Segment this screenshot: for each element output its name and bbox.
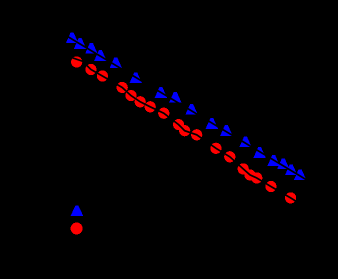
circle C12 [210,143,221,154]
circle C7 [145,101,156,112]
triangle T1 [66,32,78,43]
circle C16 [251,172,262,183]
legend marker: red circle [71,223,83,235]
triangle T13 [253,147,265,158]
triangle T8 [169,92,181,103]
circle C1 [71,56,82,67]
circle C11 [191,129,202,140]
triangle T15 [277,159,289,170]
triangle T4 [94,50,106,61]
circle C13 [224,151,235,162]
triangle T10 [206,118,218,129]
circle C6 [135,96,146,107]
triangle T9 [185,104,197,115]
black fit line over red series [67,56,297,202]
triangle T11 [220,125,232,136]
circle C18 [285,192,296,203]
circle C3 [97,70,108,81]
circle C15 [244,169,255,180]
legend marker: blue triangle [70,206,83,217]
triangle T2 [74,38,86,49]
circle C9 [173,119,184,130]
triangle T6 [130,72,142,83]
circle C4 [117,82,128,93]
circle C5 [125,90,136,101]
triangle T5 [110,58,122,69]
circle C2 [85,64,96,75]
triangle T14 [268,155,280,166]
circle C17 [265,181,276,192]
circle C14 [238,163,249,174]
blue triangle series (upper curve) [66,32,306,180]
triangle T16 [285,165,297,176]
circle C10 [179,125,190,136]
black fit line over blue series [62,33,312,183]
circle C8 [158,108,169,119]
triangle T7 [155,87,167,98]
triangle T3 [85,43,97,54]
triangle T17 [294,169,306,180]
triangle T12 [239,137,251,148]
red circle series (lower curve) [71,56,296,203]
